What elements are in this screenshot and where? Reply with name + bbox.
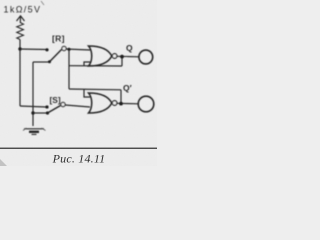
wire switch S to gate U2 input 2	[65, 105, 90, 107]
feedback wire bottom horizontal	[69, 88, 121, 91]
NOR gate U1 body	[89, 46, 112, 66]
stray mark top right of value label	[41, 1, 44, 5]
svg-text:Q′: Q′	[123, 83, 132, 93]
wire resistor to node A	[19, 40, 21, 49]
paper background	[0, 0, 157, 166]
ground stub corner to switch R lower contact	[33, 61, 49, 63]
wire left rail to switch S upper contact	[20, 106, 46, 107]
NOR gate U1 output bubble	[112, 54, 117, 59]
NOR gate U2 body	[89, 93, 112, 113]
svg-text:1kΩ/5V: 1kΩ/5V	[4, 5, 41, 15]
switch S lower contact dot	[46, 111, 49, 114]
output terminal Q circle	[139, 50, 153, 64]
wire U2 output to terminal	[117, 102, 138, 105]
wire node A down left rail	[19, 49, 21, 106]
switch S arm	[48, 106, 61, 114]
page corner shadow bottom left	[0, 159, 7, 166]
switch R pivot circle	[62, 46, 66, 50]
wire switch R to gate U1 input 1	[66, 49, 90, 50]
svg-text:[R]: [R]	[52, 34, 65, 44]
switch R upper contact dot	[45, 48, 48, 51]
switch S pivot circle	[61, 102, 65, 106]
wire U1 output to terminal	[117, 55, 139, 58]
switch S upper contact dot	[45, 105, 48, 108]
ground hatch right	[42, 128, 46, 131]
svg-text:Q: Q	[126, 43, 133, 53]
wire node A to switch R upper contact	[20, 48, 46, 51]
svg-text:[S]: [S]	[50, 95, 61, 105]
switch R arm	[50, 50, 62, 62]
node A junction dot	[18, 47, 21, 50]
node Q' junction dot	[119, 102, 123, 106]
wire ground rail to switch S lower contact	[33, 112, 47, 114]
node Q junction dot	[120, 55, 124, 59]
caption rule	[0, 148, 157, 149]
node C junction dot on ground rail	[31, 111, 34, 114]
feedback stub down to gate U2 input 1	[84, 90, 90, 98]
+5V supply arrow	[17, 16, 25, 23]
NOR gate U2 output bubble	[112, 101, 117, 106]
wire node B down	[68, 49, 70, 89]
ground rail vertical	[32, 62, 34, 126]
ground hatch left	[23, 128, 27, 131]
feedback stub up to gate U1 input 2	[84, 62, 90, 66]
resistor R1 1k	[17, 23, 24, 40]
switch R lower contact dot	[48, 60, 51, 63]
ground symbol	[24, 128, 44, 130]
output terminal Q' circle	[138, 96, 154, 112]
feedback stub to Q node	[121, 57, 123, 66]
paper noise texture	[0, 0, 1, 1]
svg-text:Рис. 14.11: Рис. 14.11	[52, 151, 106, 165]
node B junction dot on R wire	[67, 48, 70, 51]
feedback wire top horizontal	[69, 65, 122, 67]
feedback stub down to Q' node	[120, 90, 122, 104]
